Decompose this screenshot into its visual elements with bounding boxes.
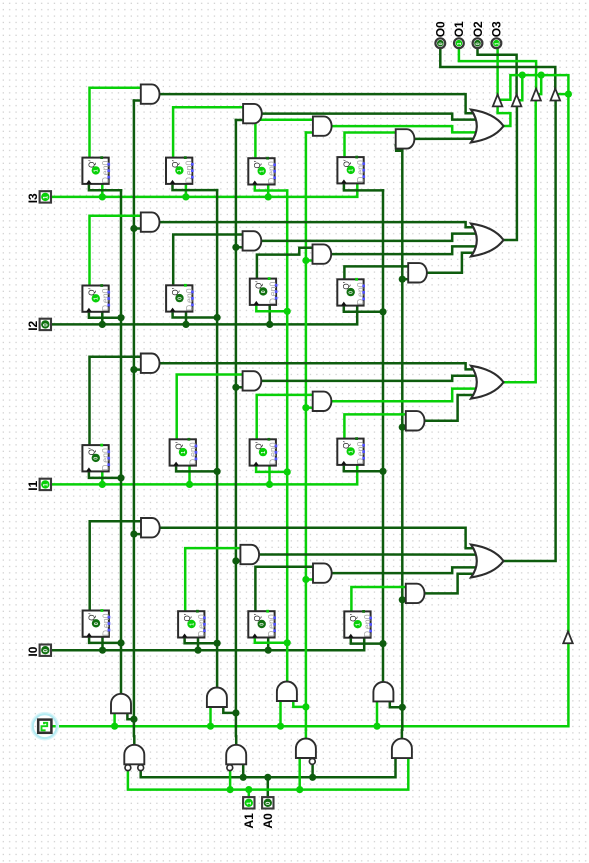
wire write vertical col1	[120, 190, 123, 694]
wire AND3 out band1	[332, 126, 477, 132]
wire D stub r2c1	[101, 312, 104, 325]
wire B1 out	[133, 736, 136, 745]
AND gate decoder col1 (inverted inputs)	[124, 745, 144, 764]
svg-text:0: 0	[261, 290, 267, 293]
wire AND2 out band2	[261, 234, 475, 241]
junction data r3c3	[266, 481, 273, 488]
flip-flop r1c3	[248, 157, 276, 185]
svg-text:0: 0	[260, 623, 266, 626]
junction clk A2	[207, 723, 214, 730]
OR gate band2	[471, 224, 504, 257]
wire clk to A2	[209, 707, 212, 726]
wire B2 left stub	[229, 771, 232, 790]
junction data r1c1	[99, 193, 106, 200]
wire Q r3c4 to AND	[344, 414, 405, 438]
junction data r4c1	[99, 647, 106, 654]
tri-state buffer T2	[512, 95, 522, 107]
input pin I1	[40, 479, 51, 490]
junction select band2 col4	[399, 276, 406, 283]
wire AND1 out band1	[160, 94, 476, 113]
wire Q r4c4 to AND	[351, 587, 405, 611]
flip-flop r3c1	[82, 444, 110, 472]
flip-flop r1c1	[82, 156, 110, 184]
wire clock stub r4c2	[185, 638, 218, 644]
wire AND4 out band1	[414, 138, 475, 141]
output pin O2	[473, 38, 483, 48]
wire I2 pin stub	[45, 323, 51, 326]
junction clk A1	[111, 723, 118, 730]
wire T4 to O0	[440, 48, 555, 88]
wire OR1 out to T1	[498, 106, 511, 126]
wire AND3 out band3	[331, 389, 477, 402]
wire B2 out	[235, 736, 238, 745]
wire I1 pin stub	[45, 483, 51, 486]
wire enable T4	[558, 93, 568, 96]
wire D stub r2c3	[268, 305, 271, 325]
wire select tap band3 col2	[236, 386, 243, 389]
svg-text:O1: O1	[452, 21, 466, 37]
svg-text:1: 1	[181, 451, 187, 454]
junction data r3c2	[186, 481, 193, 488]
wire B3 right stub	[311, 765, 314, 777]
wire D stub r4c2	[197, 638, 200, 651]
svg-text:0: 0	[94, 622, 100, 625]
junction B2 A0	[240, 774, 247, 781]
svg-text:O0: O0	[434, 21, 448, 37]
wire clock stub r1c2	[173, 184, 218, 190]
wire clock stub r3c4	[344, 465, 383, 471]
svg-text:1: 1	[94, 297, 100, 300]
wire Q r4c2 to AND	[185, 548, 240, 611]
wire clock stub r1c1	[89, 184, 121, 190]
junction enable T4	[565, 91, 572, 98]
junction select A4	[399, 704, 406, 711]
input pin I3	[40, 191, 51, 202]
junction select A2	[232, 709, 239, 716]
junction select band4 col2	[232, 557, 239, 564]
junction select band3 col3	[302, 404, 309, 411]
tri-state buffer T3	[531, 89, 541, 101]
wire B4 out	[401, 730, 404, 739]
wire clock stub r2c1	[89, 312, 121, 318]
AND gate decoder col2 (inverted inputs)	[226, 745, 246, 764]
wire AND2 out band4	[259, 553, 475, 556]
wire B3 out	[305, 730, 308, 739]
wire D stub r3c1	[101, 471, 104, 484]
wire select tap band2 col1	[134, 227, 141, 230]
wire OR2 out to T2	[504, 106, 517, 240]
wire clk to A1	[113, 713, 116, 726]
wire select to A3	[293, 701, 306, 707]
junction enable T3	[538, 72, 545, 79]
junction select band4 col4	[399, 596, 406, 603]
wire T3 to O1	[459, 48, 536, 88]
wire D stub r3c3	[268, 466, 271, 485]
svg-text:0: 0	[349, 291, 355, 294]
svg-text:A1: A1	[242, 813, 256, 829]
flip-flop r4c1	[83, 609, 111, 637]
output pin O3	[492, 38, 502, 48]
wire AND4 out band2	[427, 253, 475, 273]
wire AND1 out band3	[160, 363, 476, 369]
wire enable T2	[519, 75, 522, 100]
OR gate band1	[471, 110, 504, 143]
AND gate write col1	[111, 694, 131, 714]
wire D stub r4c3	[267, 638, 270, 651]
svg-text:1: 1	[260, 170, 266, 173]
junction write col3 r2	[284, 308, 291, 315]
junction write col1 r2	[117, 314, 124, 321]
flip-flop r4c4	[344, 610, 372, 638]
junction data r1c3	[265, 193, 272, 200]
tri-state buffer T4	[551, 89, 561, 101]
flip-flop r2c1	[82, 284, 110, 312]
junction write col2 r4	[214, 640, 221, 647]
wire select tap band3 col4	[402, 426, 406, 429]
junction data r4c2	[194, 647, 201, 654]
flip-flop r1c4	[337, 156, 365, 184]
AND gate band4 col3	[313, 563, 332, 582]
junction data r3c1	[99, 481, 106, 488]
AND gate band2 col4	[408, 263, 427, 282]
input pin I2	[40, 319, 51, 330]
junction data r1c2	[182, 193, 189, 200]
svg-text:0: 0	[476, 42, 482, 45]
wire Q r3c2 to AND	[177, 375, 243, 440]
wire select tap band2 col4	[402, 278, 408, 281]
wire clock stub r4c4	[351, 638, 383, 644]
junction write col1 r3	[117, 474, 124, 481]
wire data bus I1	[51, 465, 357, 485]
wire clock stub r3c3	[256, 466, 287, 472]
wire Q r1c4 to AND	[345, 133, 396, 158]
AND gate write col2	[207, 688, 227, 708]
wire clock stub r2c3	[256, 305, 287, 311]
wire AND1 out band4	[160, 528, 475, 549]
wire data bus I3	[51, 183, 357, 197]
output pin O1	[454, 38, 464, 48]
AND gate band2 col3	[313, 244, 332, 263]
wire Q r2c2 to AND	[173, 235, 242, 286]
svg-text:A0: A0	[261, 813, 275, 829]
flip-flop r2c2	[166, 284, 194, 312]
wire OR4 out to T4	[504, 100, 556, 561]
junction write col3 r3	[284, 468, 291, 475]
wire Q r2c4 to AND	[344, 266, 408, 279]
svg-text:1: 1	[94, 169, 100, 172]
junction write col2 r3	[214, 468, 221, 475]
wire enable bus to T1	[501, 75, 569, 631]
wire AND3 out band2	[331, 246, 477, 254]
OR gate band4	[471, 545, 504, 578]
svg-text:1: 1	[349, 169, 355, 172]
svg-text:O3: O3	[490, 21, 504, 37]
wire I0 pin stub	[45, 649, 51, 652]
wire Q r2c3 to AND	[257, 248, 313, 279]
junction write col4 r4	[379, 640, 386, 647]
wire select vertical col3	[305, 133, 308, 730]
buffer clock line	[563, 631, 573, 643]
junction select band2 col2	[232, 244, 239, 251]
AND gate band2 col2	[243, 231, 262, 250]
junction write col1 r4	[117, 639, 124, 646]
AND gate band3 col3	[313, 392, 332, 411]
AND gate band1 col3	[313, 116, 332, 135]
svg-text:O2: O2	[471, 21, 485, 37]
wire D stub r1c3	[267, 185, 270, 197]
wire Q r2c1 to AND	[90, 216, 141, 286]
wire A0 bus	[141, 758, 396, 777]
wire clock stub r2c4	[344, 306, 383, 312]
svg-text:1: 1	[356, 623, 362, 626]
input pin A1	[243, 797, 254, 808]
flip-flop r3c4	[337, 437, 365, 465]
junction select band2 col3	[302, 257, 309, 264]
junction B3 A1	[296, 786, 303, 793]
wire select vertical col2	[235, 120, 238, 736]
wire A1 pin stub	[248, 790, 251, 797]
wire select to A4	[390, 701, 403, 707]
flip-flop r4c2	[178, 610, 206, 638]
wire write vertical col2	[216, 190, 219, 688]
wire Q r1c3 to AND	[255, 120, 313, 159]
wire data bus I2	[51, 306, 357, 325]
svg-text:I3: I3	[26, 193, 40, 203]
wire write vertical col3	[286, 191, 289, 683]
junction B2 A1	[227, 786, 234, 793]
AND gate band1 col2	[243, 104, 262, 123]
wire B2 right stub	[242, 764, 245, 777]
wire Q r3c1 to AND	[90, 357, 141, 445]
wire write vertical col4	[382, 190, 385, 682]
svg-text:1: 1	[494, 42, 500, 45]
wire D stub r1c1	[101, 184, 104, 197]
junction A0 pin	[264, 774, 271, 781]
junction enable T2	[519, 72, 526, 79]
svg-text:1: 1	[457, 42, 463, 45]
output pin O0	[435, 38, 445, 48]
wire AND4 out band4	[425, 574, 476, 594]
junction write col4 r3	[379, 468, 386, 475]
junction data r4c3	[265, 647, 272, 654]
wire select tap band4 col1	[134, 533, 141, 536]
wire select tap band4 col3	[306, 578, 313, 581]
wire select tap band1 col2	[236, 119, 243, 122]
AND gate band1 col4	[396, 129, 415, 148]
wire A1 bus	[128, 758, 408, 790]
svg-text:1: 1	[177, 169, 183, 172]
wire T1 to O3	[496, 48, 499, 94]
wire select tap band3 col1	[134, 368, 141, 371]
svg-text:1: 1	[189, 623, 195, 626]
wire select tap band4 col4	[402, 599, 406, 602]
wire select tap band1 col4	[396, 145, 403, 150]
clock pin	[32, 713, 58, 739]
junction select band4 col3	[302, 576, 309, 583]
AND gate band4 col4	[406, 584, 425, 603]
wire select tap band1 col3	[306, 131, 313, 134]
wire AND2 out band3	[261, 376, 475, 381]
wire select vertical col1	[133, 101, 136, 737]
AND gate band4 col1	[141, 518, 160, 537]
wire clock stub r4c3	[255, 638, 287, 643]
AND gate band3 col4	[406, 411, 425, 430]
svg-text:1: 1	[261, 451, 267, 454]
wire Q r4c3 to AND	[255, 567, 313, 612]
junction select A3	[302, 703, 309, 710]
wire select to A2	[223, 707, 236, 713]
junction select band3 col4	[399, 424, 406, 431]
wire AND3 out band4	[332, 567, 477, 573]
OR gate band3	[471, 366, 504, 399]
flip-flop r4c3	[248, 610, 276, 638]
AND gate write col4	[373, 682, 393, 702]
wire select tap band2 col2	[236, 246, 243, 249]
wire clock stub r3c1	[89, 471, 121, 478]
wire select tap band1 col1	[134, 99, 141, 102]
wire D stub r1c2	[185, 184, 188, 197]
junction select band2 col1	[130, 225, 137, 232]
svg-text:I1: I1	[26, 480, 40, 490]
junction A1 pin	[245, 786, 252, 793]
wire enable T3	[539, 75, 541, 94]
junction clk A4	[373, 723, 380, 730]
AND gate band2 col1	[141, 212, 160, 231]
svg-text:I2: I2	[26, 320, 40, 330]
wire select tap band3 col3	[306, 406, 313, 409]
wire clock stub r4c1	[89, 637, 121, 643]
wire B3 left stub	[298, 758, 301, 790]
wire AND1 out band2	[160, 222, 476, 227]
wire clock stub r1c3	[255, 185, 287, 191]
junction write col3 r4	[284, 639, 291, 646]
flip-flop r1c2	[166, 156, 194, 184]
AND gate decoder col3 (inverted inputs)	[296, 739, 316, 759]
junction data r2c2	[182, 321, 189, 328]
AND gate write col3	[277, 682, 297, 702]
junction write col2 r2	[214, 314, 221, 321]
junction clk A3	[277, 723, 284, 730]
wire clock stub r2c2	[173, 312, 218, 318]
wire clk to A4	[376, 701, 379, 726]
AND gate band3 col1	[141, 354, 160, 373]
wire clock bus	[51, 643, 568, 726]
svg-text:I0: I0	[26, 646, 40, 656]
junction write col4 r2	[379, 308, 386, 315]
AND gate band1 col1	[141, 84, 160, 103]
wire AND4 out band3	[425, 395, 476, 421]
wire D stub r3c2	[188, 466, 191, 485]
svg-text:0: 0	[438, 42, 444, 45]
input pin A0	[262, 797, 273, 808]
tri-state buffer T1	[493, 95, 503, 107]
wire clk to A3	[279, 701, 282, 726]
wire D stub r2c2	[185, 312, 188, 325]
wire AND2 out band1	[262, 114, 475, 120]
wire D stub r4c1	[101, 637, 104, 650]
svg-text:0: 0	[94, 457, 100, 460]
wire select tap band4 col2	[236, 560, 241, 563]
junction select band4 col1	[130, 531, 137, 538]
wire select to A1	[127, 713, 133, 719]
flip-flop r2c3	[250, 277, 278, 305]
flip-flop r3c3	[250, 438, 278, 466]
wire Q r1c1 to AND	[90, 88, 141, 158]
wire clock stub r1c4	[344, 183, 383, 190]
wire select tap band2 col3	[306, 259, 313, 262]
wire T2 to O2	[478, 48, 517, 94]
junction select band3 col2	[232, 384, 239, 391]
wire Q r3c3 to AND	[257, 395, 313, 439]
junction data r2c3	[266, 321, 273, 328]
junction select A1	[130, 716, 137, 723]
AND gate band4 col2	[240, 545, 259, 564]
wire I3 pin stub	[45, 196, 51, 199]
AND gate band3 col2	[243, 371, 262, 390]
junction data r2c1	[99, 321, 106, 328]
junction select band3 col1	[130, 366, 137, 373]
svg-text:1: 1	[349, 450, 355, 453]
wire Q r1c2 to AND	[173, 107, 243, 157]
wire clock stub r3c2	[176, 466, 217, 472]
wire Q r4c1 to AND	[90, 521, 141, 610]
wire OR3 out to T3	[504, 100, 537, 382]
wire data bus I0	[51, 638, 364, 651]
flip-flop r3c2	[170, 438, 198, 466]
wire select vertical col4	[401, 151, 404, 730]
svg-text:0: 0	[177, 297, 183, 300]
AND gate decoder col4 (inverted inputs)	[392, 739, 412, 759]
input pin I0	[40, 645, 51, 656]
flip-flop r2c4	[337, 278, 365, 306]
junction B3 A0	[309, 774, 316, 781]
wire A0 pin stub	[267, 777, 270, 797]
